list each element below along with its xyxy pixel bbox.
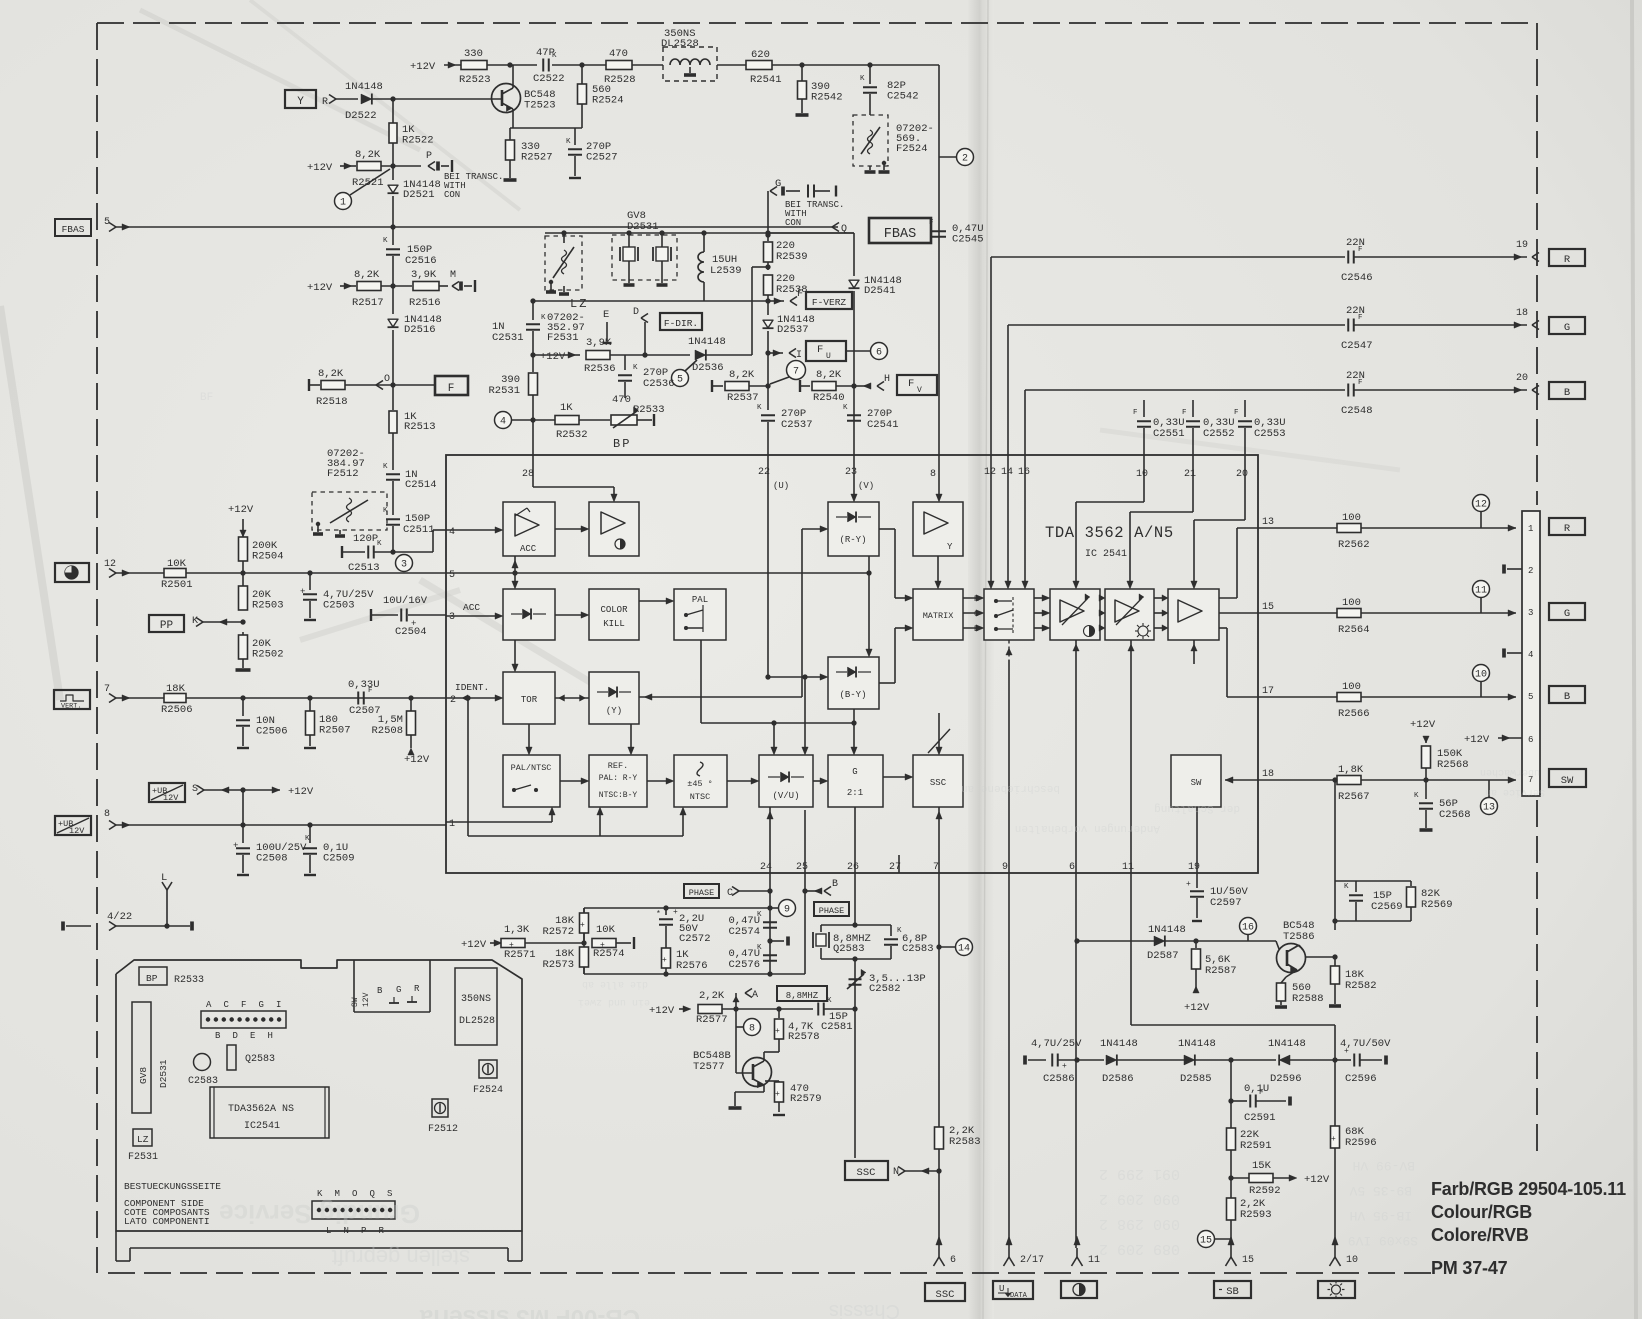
wire pin11 line down [852,1006,857,1011]
capacitor C2503 4,7U/25V electrolytic [309,573,311,590]
wire G input row pin14 [1008,324,1345,326]
svg-text:090 209 2: 090 209 2 [1099,1190,1180,1207]
svg-text:C: C [224,1000,230,1010]
capacitor C2514 1N [386,473,400,475]
svg-text:C2586: C2586 [1043,1073,1075,1085]
wire MATRIX to RGB switch B [963,627,980,629]
resistor R2571 1,3K [501,939,525,948]
svg-text:G: G [775,178,781,190]
svg-text:F2531: F2531 [128,1152,158,1163]
svg-text:7: 7 [933,862,939,873]
resistor R2532 1K [533,419,555,421]
svg-text:1N4148: 1N4148 [1100,1038,1138,1050]
svg-text:H: H [268,1031,273,1041]
connector label box R [1549,518,1585,535]
svg-text:4: 4 [500,417,506,428]
svg-text:C2503: C2503 [323,600,355,612]
svg-text:R2592: R2592 [1249,1185,1281,1197]
svg-text:G: G [396,985,401,995]
phase mid stub [767,938,772,943]
svg-text:R2533: R2533 [174,975,204,986]
svg-text:F2512: F2512 [327,468,359,480]
svg-text:C2509: C2509 [323,853,355,865]
wire node C2542 [867,62,872,67]
svg-text:F2512: F2512 [428,1124,458,1135]
resistor R2592 15K [1231,1177,1249,1179]
wire output amp to pin15 [1219,612,1258,614]
capacitor C2536 270P [624,355,626,370]
wire pin20 to output top [1244,455,1246,520]
diode D2587 1N4148 [1154,936,1165,946]
svg-text:100: 100 [1342,512,1361,524]
resistor R2569 82K [1410,881,1412,886]
wire pin8 Y amp [938,455,940,498]
wire node C2509 [307,822,312,827]
tank top link [1335,880,1356,882]
svg-text:PHASE: PHASE [689,888,715,898]
IC block ACC amplifier [503,502,555,556]
trimmer F2531 dashed box [545,236,582,290]
svg-text:A: A [206,1000,212,1010]
svg-text:C2548: C2548 [1341,405,1373,417]
svg-text:19: 19 [1516,240,1528,251]
wire brightness to pin11 [1130,640,1132,873]
svg-text:8,2K: 8,2K [729,369,755,381]
terminal box VERT [54,690,90,709]
svg-text:R2504: R2504 [252,551,284,563]
resistor R2504 200K [239,537,248,561]
svg-text:6: 6 [1069,862,1075,873]
resistor R2539 220 [767,233,769,241]
wire R input row pin12 [991,256,1345,258]
resistor R2508 1,5M [410,698,412,711]
terminal 6 bottom [938,1248,940,1257]
circle node 11 right [1480,598,1482,613]
wire output amp to pin13 [1219,597,1237,599]
svg-text:D2587: D2587 [1147,950,1179,962]
svg-text:R2583: R2583 [949,1136,981,1148]
terminal box brightness symbol [1318,1281,1355,1298]
svg-text:TDA3562A NS: TDA3562A NS [228,1104,294,1115]
resistor R2521 8,2K [357,162,381,171]
svg-text:B9-35 5V: B9-35 5V [1349,1183,1412,1198]
svg-text:11: 11 [1475,586,1487,597]
svg-text:(V/U): (V/U) [772,791,799,801]
wire pin2 IDENT into TOR [446,697,499,699]
svg-text:+12V: +12V [410,61,436,73]
svg-text:R2527: R2527 [521,152,553,164]
svg-text:R2562: R2562 [1338,539,1370,551]
svg-text:15: 15 [1242,1255,1254,1266]
svg-text:C: C [727,888,733,899]
resistor R2564 100 [1337,609,1361,618]
wire pin24 down [769,873,771,974]
svg-text:R2536: R2536 [584,363,616,375]
svg-text:C2583: C2583 [902,943,934,955]
svg-text:9: 9 [784,905,790,916]
resistor R2538 220 [764,275,773,295]
capacitor C2586 4,7U/25V [1051,1054,1053,1067]
svg-text:C2591: C2591 [1244,1112,1276,1124]
svg-text:D2522: D2522 [345,110,377,122]
svg-text:18: 18 [1262,769,1274,780]
wire pin12 into RGB switch [990,455,992,585]
wire Y demod down to REF [630,724,632,751]
svg-text:C2576: C2576 [728,959,760,971]
node H arrow [877,382,884,387]
capacitor C2504 10U/16V [370,609,372,621]
wire up into REF bottom [599,811,601,836]
svg-text:16: 16 [1018,467,1030,478]
wire node base junction [390,96,395,101]
wire ACC amp to killer amp [555,528,585,530]
circle node 7 [787,361,806,380]
resistor R2503 20K [239,586,248,610]
circle node 14 [939,946,956,948]
trimmer capacitor C2582 3,5..13P [849,978,862,980]
wire node R2517-R2516 [390,283,395,288]
svg-text:Colour/RGB: Colour/RGB [1431,1202,1532,1222]
resistor R2542 390 [801,65,803,82]
svg-text:+: + [1331,1135,1336,1144]
wire node R2531 bottom [530,417,535,422]
wire node C2506 [240,695,245,700]
wire pin18 SW row [1258,779,1516,781]
svg-text:4,7U/50V: 4,7U/50V [1340,1038,1391,1050]
svg-text:12: 12 [1475,500,1487,511]
svg-text:R2571: R2571 [504,949,536,961]
diode D2537 1N4148 [767,301,769,315]
resistor R2576 1K [662,948,671,968]
svg-text:3,9K: 3,9K [411,269,437,281]
circle node 1 [335,193,352,210]
wire top rail to node 2 [938,65,940,455]
net label box F-DIR [660,313,702,330]
svg-text:E: E [603,309,609,321]
wire PAL out down to G block [700,640,702,723]
svg-text:G: G [1564,608,1570,620]
resistor R2587 5,6K [1195,941,1197,948]
svg-text:+12V: +12V [307,282,333,294]
circle node 4 [495,412,512,429]
resistor R2536 3,9K [586,351,610,360]
svg-text:SW: SW [1191,778,1202,788]
svg-text:8,8MHZ: 8,8MHZ [786,991,819,1001]
resistor R2527 330 [509,128,511,140]
svg-text:Chassis: Chassis [829,1300,900,1319]
diode D2586 1N4148 [1106,1055,1117,1065]
svg-text:+: + [662,956,667,965]
PCB box 350NS DL2528 [455,968,497,1045]
delay line DL2528 350NS dashed box [663,47,717,81]
svg-text:U: U [826,352,831,361]
svg-text:F2531: F2531 [547,332,579,344]
svg-text:21: 21 [1184,469,1196,480]
svg-text:D2585: D2585 [1180,1073,1212,1085]
svg-text:0,1U: 0,1U [1244,1083,1269,1095]
svg-text:C2552: C2552 [1203,428,1235,440]
svg-text:K: K [383,507,388,515]
svg-text:F: F [817,344,823,356]
svg-text:Farb/RGB 29504-105.11: Farb/RGB 29504-105.11 [1431,1179,1626,1199]
circle node 5 [672,370,689,387]
wire contrast to brightness amp [1100,597,1101,599]
svg-text:R2523: R2523 [459,74,491,86]
IC block COLOR KILL [589,589,639,640]
svg-text:R: R [414,984,420,994]
svg-text:470: 470 [612,394,631,406]
svg-text:R2542: R2542 [811,92,843,104]
svg-text:K: K [860,75,865,83]
svg-text:R2513: R2513 [404,421,436,433]
svg-text:091 299 2: 091 299 2 [1099,1165,1180,1182]
svg-text:F: F [929,219,934,227]
terminal box chroma symbol [55,563,89,582]
svg-text:+: + [775,1090,780,1099]
wire pin25 down [804,873,806,974]
wire brightness to output amp [1154,597,1164,599]
svg-text:R2567: R2567 [1338,791,1370,803]
capacitor C2537 270P [767,386,769,410]
svg-text:D2516: D2516 [404,324,436,336]
+12V supply below R2587 [1193,986,1199,993]
svg-text:E: E [250,1031,255,1041]
svg-text:8,2K: 8,2K [354,269,380,281]
svg-text:M: M [335,1189,340,1199]
wire NTSC to V/U arrow [727,780,755,782]
capacitor C2542 82P [869,65,871,84]
svg-text:1,8K: 1,8K [1338,764,1364,776]
capacitor C2591 0,1U [1228,1098,1233,1103]
svg-text:PM 37-47: PM 37-47 [1431,1258,1508,1278]
svg-text:B: B [1564,387,1570,399]
plug left of R2518 [308,379,310,391]
wire pin27 stub [898,855,900,873]
resistor R2518 8,2K [321,381,345,390]
net label box PP [149,615,184,632]
phase loop bottom wire [584,973,805,975]
svg-text:PAL/NTSC: PAL/NTSC [511,763,552,773]
svg-text:PAL: PAL [692,595,708,605]
schematic dashed border right [1536,23,1538,505]
svg-text:C2583: C2583 [188,1076,218,1087]
svg-text:R2579: R2579 [790,1093,822,1105]
PCB trimmer F2512 [432,1099,448,1117]
capacitor C2547 22N [1347,319,1349,332]
svg-text:R2522: R2522 [402,135,434,147]
wire Y amp to MATRIX [937,556,939,585]
net label box F U [806,341,846,361]
svg-text:C2597: C2597 [1210,897,1242,909]
diode D2541 1N4148 [853,275,855,277]
svg-text:D: D [633,307,639,318]
svg-text:C2569: C2569 [1371,901,1403,913]
svg-text:K: K [843,404,848,412]
terminal box U DATA [993,1281,1033,1299]
svg-text:S: S [387,1189,392,1199]
capacitor C2546 22N [1347,251,1349,264]
svg-text:IC 2541: IC 2541 [1085,549,1127,560]
wire node collector junction [507,62,512,67]
wire pin9 down to terminal 2/17 [1008,873,1010,1248]
svg-text:±45 °: ±45 ° [687,779,713,789]
svg-text:1N4148: 1N4148 [688,336,726,348]
svg-text:SSC: SSC [930,778,947,788]
wire SSC slash symbol [938,713,940,751]
schematic dashed border top [97,22,1537,24]
svg-text:R2588: R2588 [1292,993,1324,1005]
IC TDA3562A/N5 IC2541 outline [446,455,1258,873]
svg-text:2: 2 [450,695,456,706]
wire loop to trimmer [854,959,856,1009]
resistor R2567 1,8K [1337,776,1361,785]
svg-text:Colore/RVB: Colore/RVB [1431,1225,1529,1245]
wire MATRIX to RGB switch G [963,612,980,614]
svg-text:C2537: C2537 [781,419,813,431]
svg-text:Q: Q [370,1189,375,1199]
svg-text:C2536: C2536 [643,378,675,390]
wire node R2571-R2573 [581,940,586,945]
wire node R2507 [307,695,312,700]
connector label box G top [1549,317,1585,334]
svg-text:F: F [1358,379,1363,387]
svg-text:BP: BP [613,437,631,451]
IC block RGB insertion switch [984,589,1034,640]
svg-text:R2541: R2541 [750,74,782,86]
svg-text:C2506: C2506 [256,726,288,738]
connector pin4 stub [1502,649,1506,658]
svg-text:ein und zwei: ein und zwei [578,996,650,1008]
svg-text:8: 8 [104,809,110,820]
svg-text:12V: 12V [69,826,85,836]
capacitor C2553 0,33U [1244,400,1246,417]
connector label box R top [1549,249,1585,266]
plug bar right of 4/22 wire [190,922,194,931]
net label box F [435,376,468,395]
svg-text:T2577: T2577 [693,1061,725,1073]
svg-text:+: + [233,841,238,851]
svg-text:R2572: R2572 [542,926,574,938]
svg-text:C2531: C2531 [492,332,524,344]
svg-text:NTSC: NTSC [690,792,710,802]
svg-text:P: P [426,151,432,162]
svg-text:R2593: R2593 [1240,1209,1272,1221]
svg-text:IB-95 VH: IB-95 VH [1350,1208,1412,1223]
connector label box G2 [1549,603,1585,620]
svg-text:23: 23 [845,467,857,478]
PCB connector strip KMOQS [312,1201,395,1219]
crystal loop bottom wire [821,958,891,960]
svg-text:17: 17 [1262,686,1274,697]
svg-text:GV8: GV8 [138,1067,149,1084]
resistor R2582 18K [1334,957,1336,966]
connector label box B2 [1549,686,1585,703]
IC block R-Y demodulator [828,502,879,556]
IC block brightness amplifier [1105,589,1154,640]
transistor T2523 BC548 [492,84,521,113]
svg-text:R2569: R2569 [1421,899,1453,911]
terminal 10 bottom [1334,1248,1336,1257]
wire contrast to pin6 [1075,640,1077,873]
DL2528 inductor symbol [670,59,710,65]
svg-text:F2524: F2524 [896,143,928,155]
svg-text:13: 13 [1262,517,1274,528]
wire pin14 into RGB switch [1007,455,1009,585]
svg-text:TOR: TOR [521,695,538,705]
svg-text:3: 3 [1528,608,1533,618]
svg-text:R2501: R2501 [161,579,193,591]
wire up into NTSC bottom [682,811,684,836]
svg-text:F-DIR.: F-DIR. [664,318,698,329]
svg-text:der Schaltung: der Schaltung [1154,802,1240,814]
svg-text:IDENT.: IDENT. [455,682,489,693]
circle node 3 [396,555,413,572]
wire TOR-Y demod arrows [555,697,589,699]
resistor R2579 470 [765,1080,779,1082]
svg-text:4,7U/25V: 4,7U/25V [1031,1038,1082,1050]
crystal 1 [628,233,630,247]
IC block B-Y demodulator [828,657,879,709]
svg-text:8,2K: 8,2K [355,149,381,161]
resistor R2577 2,2K [698,1005,722,1014]
phase loop top wire [584,907,770,909]
wire collector row [1305,956,1335,958]
svg-text:25: 25 [796,862,808,873]
wire pin10 to contrast top [1143,455,1145,502]
svg-text:H: H [884,374,890,385]
svg-text:SW: SW [351,997,360,1007]
wire node C2503 [307,570,312,575]
svg-text:R2506: R2506 [161,704,193,716]
wire V/U to pin25 [804,810,806,873]
svg-text:C2572: C2572 [679,933,711,945]
PCB part Q2583 [227,1045,236,1070]
svg-text:5: 5 [677,375,683,386]
svg-text:V: V [917,386,922,395]
IC block REF PAL NTSC [589,755,647,807]
capacitor C2569 15P [1355,881,1357,892]
tank circuit bottom wire [1335,920,1411,922]
svg-text:R2516: R2516 [409,297,441,309]
IC block ACC detector [503,589,555,640]
svg-text:20: 20 [1236,469,1248,480]
svg-text:L2539: L2539 [710,265,742,277]
svg-text:330: 330 [464,48,483,60]
svg-text:B: B [832,879,838,890]
net label box PHASE 2 [814,902,849,916]
PCB box BP [139,967,167,985]
IC block killer amplifier [589,502,639,556]
svg-text:A: A [752,990,758,1001]
resistor R2541 620 [746,61,772,70]
svg-text:2,2K: 2,2K [699,990,725,1002]
svg-text:SSC: SSC [936,1289,955,1301]
svg-text:Grundig Service: Grundig Service [219,1199,420,1229]
resistor R2502 20K [239,635,248,659]
wire B-Y out to MATRIX [879,682,895,684]
svg-text:D: D [233,1031,238,1041]
wire pin17 B output row [1258,696,1516,698]
wire pin7 down to terminal 6 [938,873,940,1248]
svg-text:14: 14 [958,944,970,955]
capacitor C2531 1N [532,301,534,320]
svg-text:beschriebene an: beschriebene an [961,782,1060,794]
svg-text:F: F [1358,314,1363,322]
svg-text:C2541: C2541 [867,419,899,431]
svg-text:350NS: 350NS [461,994,491,1005]
svg-text:BP: BP [146,973,158,984]
svg-text:R2502: R2502 [252,649,284,661]
